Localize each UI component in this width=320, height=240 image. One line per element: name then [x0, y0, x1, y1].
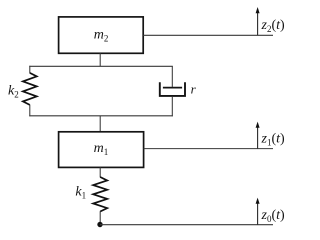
svg-text:r: r: [191, 81, 197, 96]
svg-text:z0(t): z0(t): [261, 208, 286, 224]
damper r: piston rod from top rail: [171, 66, 173, 87]
wire: m1 right edge to z1 axis: [144, 148, 273, 150]
svg-text:z1(t): z1(t): [261, 132, 286, 148]
damper r: cylinder cup: [160, 82, 185, 96]
damper r: piston plate: [163, 87, 182, 89]
spring k2: [23, 73, 37, 105]
node: junction dot at base: [97, 222, 102, 227]
mass block m2: [59, 17, 144, 53]
spring k1: [93, 177, 107, 212]
wire: bottom rail to m1 top: [99, 116, 101, 132]
wire: below damper cup to bottom rail: [171, 97, 173, 117]
svg-text:z2(t): z2(t): [261, 18, 286, 34]
svg-text:k1: k1: [75, 185, 86, 201]
svg-text:k2: k2: [8, 84, 19, 100]
wire: top rail: [29, 65, 173, 67]
wire: left stub below spring k2: [29, 105, 31, 117]
wire: bottom rail: [29, 115, 173, 117]
wire: m2 bottom to top rail: [99, 53, 101, 66]
wire: stub below spring k1 to ground node: [99, 211, 101, 225]
axis arrow z1: [256, 122, 260, 149]
wire: base line to z0 axis: [100, 224, 273, 226]
wire: stub m1 bottom to spring k1: [99, 167, 101, 177]
wire: left stub above spring k2: [29, 66, 31, 73]
mass block m1: [59, 132, 144, 168]
axis arrow z0: [256, 198, 260, 225]
axis arrow z2: [256, 7, 260, 35]
wire: m2 right edge to z2 axis: [143, 34, 273, 36]
